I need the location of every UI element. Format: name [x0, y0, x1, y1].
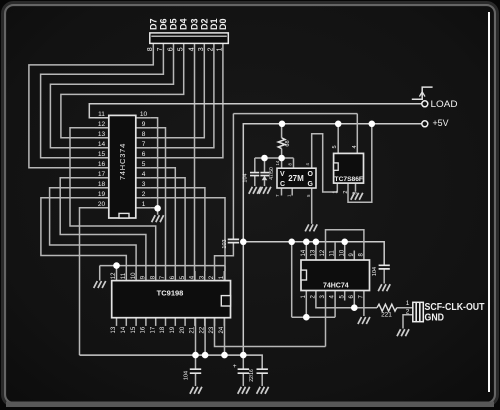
svg-text:3: 3: [352, 192, 358, 195]
wire D0 J1-1 to U2-6: [150, 43, 223, 157]
svg-text:D7: D7: [148, 18, 158, 30]
wire U4 pin 11 up: [334, 242, 336, 260]
svg-text:14: 14: [275, 160, 280, 165]
wire U4 pin 9 stub: [353, 251, 355, 261]
wire U4 row B: [292, 316, 335, 318]
svg-text:2: 2: [208, 47, 215, 51]
wire left col to row B: [291, 242, 293, 317]
svg-text:D5: D5: [169, 18, 179, 30]
TC9198 bottom pin 24 stub: [223, 318, 225, 326]
wire D4 J1-5 to U2-13: [61, 43, 184, 137]
wire D3 J1-4 to U1-4: [194, 43, 196, 280]
wire D7 J1-8 to U2-16: [29, 43, 153, 167]
wire U2-20 to bottom rail: [80, 208, 109, 355]
svg-text:3: 3: [198, 47, 205, 51]
svg-text:13: 13: [311, 249, 317, 256]
svg-text:4: 4: [352, 145, 358, 148]
wire D6 J1-7 to U2-15: [41, 43, 164, 157]
wire U4 pin 6 down: [353, 291, 355, 308]
svg-text:103: 103: [222, 239, 228, 248]
resistor R2 221: [377, 304, 397, 311]
wire gnd row drop: [99, 266, 101, 281]
74HC374 left pin 17 stub: [95, 177, 109, 179]
terminal circle LOAD: [422, 101, 428, 107]
oscillator mid top pin stub: [293, 158, 295, 168]
wire U2-17 to U1-9: [60, 178, 146, 271]
ground at J2 pin 2: [397, 329, 409, 336]
rising edge symbol: [412, 87, 433, 99]
svg-text:16: 16: [141, 326, 147, 333]
74HC374 left pin 20 stub: [95, 207, 109, 209]
svg-text:5: 5: [332, 145, 338, 148]
svg-text:27M: 27M: [288, 174, 304, 183]
TC9198 top pin 10 stub: [135, 271, 137, 281]
svg-text:8: 8: [147, 47, 154, 51]
TC9198 bottom pin 15 stub: [135, 318, 137, 326]
svg-text:3: 3: [142, 181, 146, 188]
wire U1 pin12 gnd row: [100, 266, 225, 271]
svg-text:104: 104: [372, 267, 378, 276]
ground at U2 pin 1: [152, 215, 164, 222]
wire U4 pin 12 over to pin 8: [326, 230, 364, 260]
wire node CLK coupling top: [233, 113, 357, 115]
svg-text:18: 18: [160, 326, 166, 333]
TC9198 top pin 9 stub: [145, 271, 147, 281]
svg-text:16: 16: [98, 161, 106, 168]
TC9198 bottom pin 21 stub: [194, 318, 196, 326]
junction rail U1 pin 24: [221, 352, 228, 359]
svg-text:TC9198: TC9198: [157, 288, 184, 297]
svg-text:7: 7: [157, 47, 164, 51]
wire U1 pin 12 join: [116, 266, 118, 271]
TC9198 top pin 2 stub: [214, 271, 216, 281]
74HC374 right pin 5 stub: [136, 167, 151, 169]
svg-text:11: 11: [121, 272, 127, 279]
wire U4 pin 14 up: [305, 242, 307, 260]
svg-text:C: C: [280, 181, 285, 188]
wire +5V rail: [243, 124, 421, 355]
junction +5V to U3 pin 5: [335, 121, 342, 128]
wire U2-19 to U1-11: [41, 198, 126, 271]
svg-text:22: 22: [199, 326, 205, 333]
svg-text:10: 10: [339, 249, 345, 256]
svg-text:D6: D6: [158, 18, 168, 30]
junction VCC row col left: [288, 239, 295, 246]
svg-text:+: +: [233, 363, 237, 370]
svg-text:+5V: +5V: [433, 118, 449, 128]
svg-text:19: 19: [98, 191, 106, 198]
ground at C3: [190, 387, 202, 394]
svg-text:D2: D2: [199, 18, 209, 30]
TC9198 bottom pin 13 stub: [116, 318, 118, 326]
wire U2-9 to U1-7: [150, 128, 165, 271]
svg-text:13: 13: [98, 131, 106, 138]
junction rail U1 pin 22: [202, 352, 209, 359]
svg-text:9: 9: [142, 121, 146, 128]
junction U4 pin 1: [303, 314, 310, 321]
ground at C5: [257, 387, 269, 394]
svg-text:104: 104: [183, 371, 189, 380]
wire J2 pin 2: [403, 315, 413, 329]
ground at U3 pin 3: [351, 193, 363, 200]
wire U2-3 to U1-3: [150, 188, 205, 271]
TC9198 top pin 12 stub: [116, 271, 118, 281]
svg-text:14: 14: [301, 249, 307, 256]
oscillator X1 27M body: [277, 168, 316, 188]
svg-text:22/16: 22/16: [249, 369, 255, 382]
svg-text:24: 24: [219, 326, 225, 333]
svg-text:21: 21: [190, 326, 196, 333]
IC 74HC374 U2 body: [109, 115, 136, 218]
svg-text:2: 2: [343, 191, 349, 194]
wire U2-5 to U1-6: [150, 168, 175, 271]
wire C7 bottom to U1 pin 2: [215, 243, 234, 271]
capacitor C6 104: [379, 265, 390, 269]
terminal circle +5V: [422, 121, 428, 127]
wire C2 bottom lead: [264, 180, 266, 186]
svg-text:10: 10: [140, 111, 148, 118]
junction +5V to U3 pin 2 branch: [369, 121, 376, 128]
wire U2-18 to U1-10: [50, 188, 137, 271]
wire R2 to J2 pin 1: [397, 307, 413, 309]
svg-text:D3: D3: [190, 18, 200, 30]
svg-text:15: 15: [98, 151, 106, 158]
74HC374 left pin 12 stub: [95, 127, 109, 129]
junction +5V drop at VCC row: [240, 239, 247, 246]
svg-text:GND: GND: [425, 313, 445, 324]
wire U2 pin1 to gnd: [150, 208, 157, 215]
svg-text:17: 17: [98, 171, 106, 178]
wire U1 pin 24 to rail: [224, 318, 226, 355]
wire U3 pin 3 to gnd: [355, 183, 357, 191]
TC9198 top pin 4 stub: [194, 271, 196, 281]
TC9198 top pin 3 stub: [204, 271, 206, 281]
svg-text:2: 2: [406, 309, 410, 316]
ground at C1: [249, 187, 261, 194]
wire C7 top lead: [232, 114, 234, 240]
wire C4 top lead: [242, 355, 244, 369]
svg-text:5: 5: [178, 47, 185, 51]
svg-text:D0: D0: [218, 18, 228, 30]
TC7S86F left notch: [334, 163, 339, 170]
TC9198 top pin 6 stub: [174, 271, 176, 281]
svg-text:15: 15: [131, 326, 137, 333]
TC9198 top pin 7 stub: [165, 271, 167, 281]
TC9198 right notch: [221, 296, 230, 306]
wire U4 pin 3 long drop: [325, 291, 327, 347]
svg-text:18: 18: [98, 181, 106, 188]
IC 74HC74 U4 body: [301, 260, 370, 291]
wire R1 bottom to X1 V: [281, 149, 283, 169]
connector J1 D-bus header: [150, 33, 229, 44]
wire C5 top lead: [261, 355, 263, 369]
74HC374 left pin 18 stub: [95, 187, 109, 189]
svg-text:V: V: [280, 171, 285, 178]
wire U4 row A: [316, 291, 377, 308]
junction rail +5V lane: [240, 352, 247, 359]
svg-text:1: 1: [406, 300, 410, 307]
svg-text:10: 10: [131, 272, 137, 279]
74HC374 right pin 3 stub: [136, 187, 151, 189]
junction rail C3: [192, 352, 199, 359]
capacitor C4 electrolytic: [238, 369, 249, 373]
wire D2 J1-3 to U2-8: [150, 43, 204, 137]
wire C3 top lead: [195, 355, 197, 369]
svg-text:47/50: 47/50: [269, 167, 275, 180]
IC TC7S86F U3 body: [334, 153, 364, 183]
wire U4 pin 7 to gnd: [363, 291, 365, 317]
wire U4 pin 10 up: [344, 242, 346, 260]
wire D1 J1-2 to U2-7: [150, 43, 214, 147]
wire U3 pin 5 to +5V: [337, 124, 339, 154]
connector J1 inner line: [151, 35, 227, 37]
wire osc bypass row: [255, 157, 294, 159]
svg-text:7: 7: [142, 141, 146, 148]
svg-text:17: 17: [150, 326, 156, 333]
TC9198 top pin 1 stub: [223, 271, 225, 281]
svg-text:221: 221: [381, 312, 392, 319]
wire U3 pin4 drop: [356, 114, 358, 154]
TC9198 bottom pin 22 stub: [204, 318, 206, 326]
wire C5 to gnd: [261, 373, 263, 386]
wire U1 pin 22 to rail: [204, 318, 206, 355]
IC TC9198 U1 body: [112, 281, 231, 318]
wire C1 top lead: [254, 158, 256, 173]
svg-text:D4: D4: [179, 18, 189, 30]
74HC374 left pin 13 stub: [95, 137, 109, 139]
TC9198 bottom pin 20 stub: [184, 318, 186, 326]
svg-text:104: 104: [243, 173, 249, 182]
ground at C4: [238, 387, 250, 394]
junction U2 pin1 gnd: [154, 205, 161, 212]
74HC374 left pin 19 stub: [95, 197, 109, 199]
74HC374 right pin 9 stub: [136, 127, 151, 129]
svg-text:14: 14: [121, 326, 127, 333]
svg-text:5: 5: [142, 161, 146, 168]
svg-text:19: 19: [170, 326, 176, 333]
wire U1 pin1 stub join: [224, 266, 226, 281]
wire X1 O out around to U3 pin 1: [312, 134, 338, 192]
wire U2 pin10 to pin1 tie: [150, 118, 157, 209]
TC9198 top pin 5 stub: [184, 271, 186, 281]
74HC374 right pin 7 stub: [136, 147, 151, 149]
wire X1 G pin to gnd: [311, 188, 313, 224]
74HC374 left pin 15 stub: [95, 157, 109, 159]
ground at U1 pin 12: [94, 281, 106, 288]
wire C6 to gnd: [383, 269, 385, 284]
svg-text:4: 4: [188, 47, 195, 51]
capacitor C3 104: [190, 369, 201, 373]
svg-text:12: 12: [320, 249, 326, 256]
svg-text:11: 11: [98, 111, 105, 118]
wire U4 pin 4 down: [334, 291, 336, 318]
junction U1 pin 12: [113, 262, 120, 269]
wire U2-12 to U1-8: [70, 128, 156, 271]
svg-text:20: 20: [98, 201, 106, 208]
junction +5V to R1: [279, 121, 286, 128]
TC9198 top pin 8 stub: [155, 271, 157, 281]
junction U4 pin 10: [341, 239, 348, 246]
svg-text:O: O: [308, 171, 314, 178]
svg-text:11: 11: [330, 250, 336, 257]
connector J2 body: [413, 302, 424, 321]
74HC374 right pin 8 stub: [136, 137, 151, 139]
wire U3 pin 2 to +5V: [348, 124, 372, 203]
TC9198 bottom pin 23 stub: [214, 318, 216, 326]
wire U1 pin 21 to rail: [195, 318, 197, 355]
wire D5 J1-6 to U2-14: [50, 43, 173, 147]
wire R1 top: [281, 124, 283, 138]
wire U4 pin 1 down: [305, 291, 307, 318]
oscillator C pin stub: [281, 188, 283, 196]
74HC374 right pin 4 stub: [136, 177, 151, 179]
74HC374 right pin 2 stub: [136, 197, 151, 199]
svg-text:12: 12: [98, 121, 106, 128]
wire U2-2 to U1-1: [150, 198, 225, 266]
svg-text:6: 6: [142, 151, 146, 158]
wire VCC row 74HC74: [243, 242, 384, 265]
svg-text:4: 4: [142, 171, 146, 178]
svg-text:G: G: [308, 181, 314, 188]
capacitor C2 4750 electrolytic: [260, 173, 269, 176]
oscillator mid bottom pin stub: [291, 188, 293, 196]
capacitor C5 104: [257, 369, 268, 373]
svg-text:12: 12: [111, 272, 117, 279]
svg-text:68: 68: [285, 140, 291, 146]
junction X1 V pin: [278, 155, 285, 162]
74HC374 right pin 10 stub: [136, 117, 151, 119]
wire U2-4 to U1-5: [150, 178, 185, 271]
ground at C2: [259, 187, 271, 194]
wire C1 bottom lead: [254, 176, 256, 186]
svg-text:13: 13: [111, 326, 117, 333]
TC9198 bottom pin 16 stub: [145, 318, 147, 326]
ground at U4 pin 7: [358, 317, 370, 324]
ground at X1 G: [305, 224, 317, 231]
wire C4 to gnd: [242, 373, 244, 386]
wire LOAD to U2 pin 11 clock: [89, 104, 421, 118]
wire U4 pin 13 up: [315, 242, 317, 260]
svg-text:74HC74: 74HC74: [323, 283, 349, 290]
svg-text:1: 1: [333, 191, 339, 194]
74HC374 right pin 6 stub: [136, 157, 151, 159]
svg-text:2: 2: [142, 191, 146, 198]
svg-text:8: 8: [142, 131, 146, 138]
junction U4 pin 6: [351, 304, 358, 311]
wire C2 top lead: [264, 158, 266, 173]
wire C3 to gnd: [195, 373, 197, 386]
capacitor C1 104: [250, 173, 259, 176]
74HC374 left pin 11 stub: [95, 117, 109, 119]
74HC374 left pin 14 stub: [95, 147, 109, 149]
svg-text:20: 20: [180, 326, 186, 333]
TC9198 bottom pin 18 stub: [165, 318, 167, 326]
svg-text:74HC374: 74HC374: [118, 143, 127, 180]
74HC374 right pin 1 stub: [136, 207, 151, 209]
capacitor C7 103: [228, 239, 239, 242]
TC9198 bottom pin 17 stub: [155, 318, 157, 326]
wire U4 pin 5 stub: [344, 291, 346, 301]
svg-text:1: 1: [217, 47, 224, 51]
TC9198 top pin 11 stub: [125, 271, 127, 281]
wire bottom +5V rail: [80, 355, 263, 369]
74HC74 left notch: [301, 270, 307, 280]
wire U1 pin 23 to U4 pin 3: [215, 318, 326, 347]
junction U4 pin 13: [313, 239, 320, 246]
74HC374 left pin 16 stub: [95, 167, 109, 169]
junction C1 row: [261, 155, 268, 162]
svg-text:SCF-CLK-OUT: SCF-CLK-OUT: [425, 302, 485, 313]
svg-text:23: 23: [209, 326, 215, 333]
svg-text:1: 1: [142, 201, 146, 208]
74HC374 bottom notch: [119, 213, 129, 218]
svg-text:6: 6: [167, 47, 174, 51]
TC9198 bottom pin 19 stub: [174, 318, 176, 326]
resistor R1 68: [278, 138, 285, 149]
TC9198 bottom pin 14 stub: [125, 318, 127, 326]
svg-text:LOAD: LOAD: [431, 99, 459, 109]
svg-text:TC7S86F: TC7S86F: [335, 176, 364, 183]
svg-text:14: 14: [98, 141, 106, 148]
ground at C6: [378, 284, 390, 291]
junction U4 pin 14: [303, 239, 310, 246]
